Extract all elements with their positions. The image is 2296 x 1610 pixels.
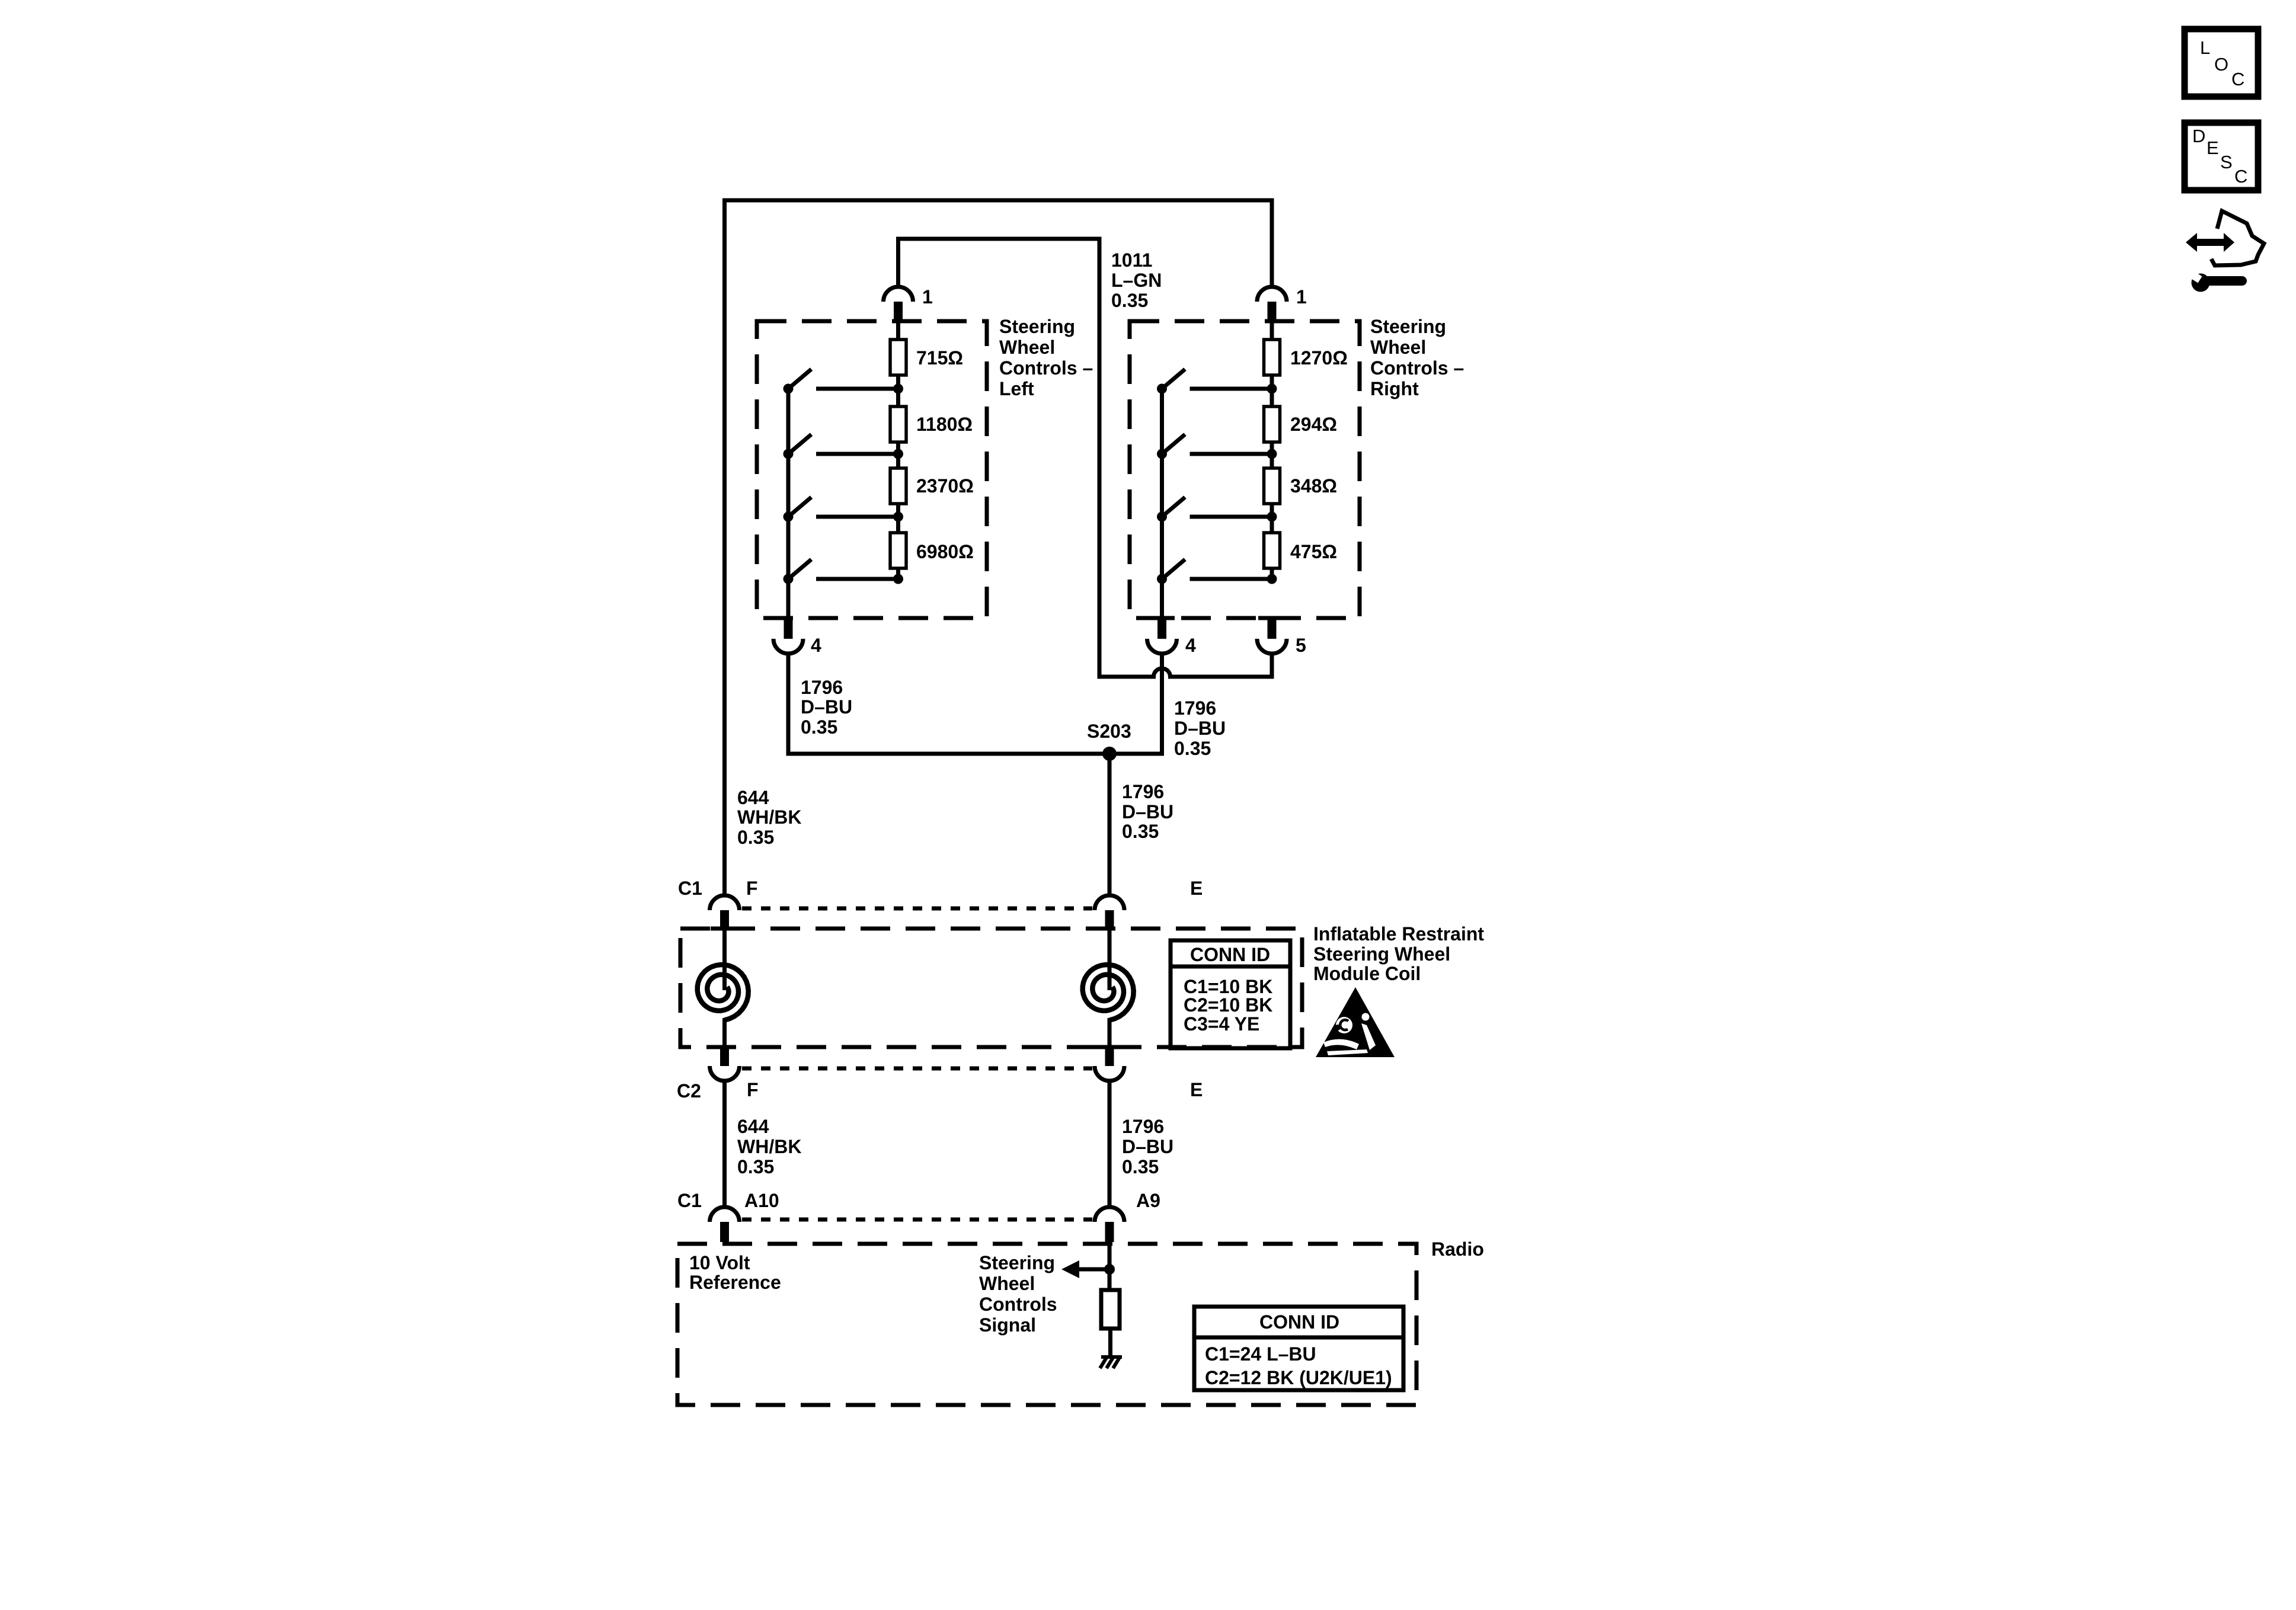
node switch pivots left SWC [784,384,794,394]
resistor right SWC 294 ohm [1264,406,1280,442]
svg-text:4: 4 [811,635,821,656]
svg-text:C2: C2 [677,1080,701,1102]
node junctions right SWC resistor chain [1267,384,1277,394]
svg-text:WH/BK: WH/BK [737,806,801,828]
svg-text:Reference: Reference [689,1272,781,1293]
svg-text:C2=12 BK (U2K/UE1): C2=12 BK (U2K/UE1) [1205,1367,1392,1388]
svg-text:C3=4 YE: C3=4 YE [1184,1013,1259,1035]
svg-text:D–BU: D–BU [1122,801,1173,822]
resistor left SWC 715 ohm [890,340,906,375]
wire 1796 D-BU from C2 E to radio A9 [1108,1081,1112,1207]
svg-text:Steering Wheel: Steering Wheel [1313,943,1450,965]
connector terminal coil C2 cavity E [1095,1066,1124,1081]
wire left SWC resistor chain segments [896,323,900,579]
arrow steering wheel controls signal output [1061,1260,1079,1278]
svg-text:1180Ω: 1180Ω [916,414,973,435]
icon vehicle direction arrow [2183,211,2265,292]
resistor right SWC 1270 ohm [1264,340,1280,375]
svg-text:D–BU: D–BU [801,696,852,718]
svg-text:C2=10 BK: C2=10 BK [1184,994,1272,1016]
ground chassis symbol [1100,1357,1122,1368]
resistor left SWC 1180 ohm [890,406,906,442]
connector terminal radio C1 cavity A10 [710,1207,740,1222]
wire 644 WH/BK from C2 F to radio C1 A10 [722,1081,727,1207]
svg-text:F: F [746,878,758,899]
svg-text:Radio: Radio [1431,1238,1484,1260]
svg-text:1796: 1796 [801,677,843,698]
switch blades left SWC S1-S4 [788,369,811,579]
resistor radio internal pull-down [1101,1290,1120,1329]
wire left SWC switch rail [786,389,791,619]
svg-text:0.35: 0.35 [737,827,774,848]
svg-text:C1: C1 [677,1190,702,1211]
svg-text:E: E [1190,1079,1203,1100]
node switch pivots right SWC [1157,384,1167,394]
wire 1011 L-GN: left SWC conn1 up, across, down right side, to right SWC conn5 (with hop over conn4 wire) [898,239,1272,677]
svg-text:L: L [2200,37,2210,58]
connector terminal left SWC pin 4 [773,639,803,654]
svg-text:644: 644 [737,1116,769,1137]
wire 1796 D-BU from right SWC conn 4 down to S203 [1113,654,1162,754]
wire 644 WH/BK: radio 10V ref loop, left vertical + top run to right SWC connector 1 [725,200,1272,895]
wire resistor to ground [1108,1329,1112,1356]
node radio signal junction [1104,1264,1115,1275]
component box Radio [677,1244,1416,1405]
resistor left SWC 2370 ohm [890,468,906,504]
svg-text:Wheel: Wheel [1370,337,1426,358]
svg-text:CONN ID: CONN ID [1190,944,1270,965]
coil spiral right (clockspring) [1083,965,1134,1020]
svg-text:D–BU: D–BU [1122,1136,1173,1157]
connector terminal right SWC pin 1 [1257,287,1287,302]
svg-text:1270Ω: 1270Ω [1290,347,1348,369]
svg-text:L–GN: L–GN [1111,270,1162,291]
svg-text:Steering: Steering [1370,316,1446,337]
svg-text:Right: Right [1370,378,1419,399]
svg-text:1011: 1011 [1111,249,1152,271]
svg-text:Module Coil: Module Coil [1313,963,1421,984]
svg-text:A9: A9 [1136,1190,1160,1211]
node junctions left SWC resistor chain [893,384,903,394]
svg-text:Controls –: Controls – [999,357,1093,379]
svg-text:Wheel: Wheel [979,1273,1035,1294]
resistor right SWC 348 ohm [1264,468,1280,504]
svg-text:10 Volt: 10 Volt [689,1252,750,1273]
wire right SWC resistor chain segments [1270,323,1274,579]
svg-text:Steering: Steering [979,1252,1055,1273]
switch blades right SWC S5-S8 [1162,369,1185,579]
svg-text:475Ω: 475Ω [1290,541,1337,562]
svg-text:A10: A10 [744,1190,779,1211]
svg-text:Signal: Signal [979,1314,1036,1336]
connector terminal left SWC pin 1 [884,287,913,302]
svg-text:1796: 1796 [1122,781,1164,802]
resistor left SWC 6980 ohm [890,533,906,568]
svg-text:O: O [2214,54,2228,75]
svg-text:CONN ID: CONN ID [1259,1311,1339,1333]
inline harness connector line C2 F to E [742,1067,1092,1071]
svg-text:F: F [747,1079,759,1100]
connector terminal coil C2 cavity F [710,1066,740,1081]
svg-text:0.35: 0.35 [1122,1156,1159,1177]
node splice S203 [1102,747,1117,761]
coil spiral left (clockspring) [698,965,749,1020]
svg-text:1796: 1796 [1174,697,1216,719]
svg-text:Left: Left [999,378,1034,399]
svg-text:1796: 1796 [1122,1116,1164,1137]
svg-text:1: 1 [1296,286,1307,308]
resistor right SWC 475 ohm [1264,533,1280,568]
wire signal node to internal resistor [1108,1269,1112,1290]
icon LOC hyperlink box [2185,29,2258,97]
svg-text:6980Ω: 6980Ω [916,541,974,562]
svg-text:Steering: Steering [999,316,1075,337]
svg-text:S203: S203 [1087,721,1131,742]
svg-text:D–BU: D–BU [1174,718,1226,739]
icon SRS warning triangle (inflatable restraint) [1316,987,1395,1057]
svg-text:Wheel: Wheel [999,337,1055,358]
wire right SWC switch fixed contacts [1190,389,1272,579]
svg-text:0.35: 0.35 [737,1156,774,1177]
icon DESC hyperlink box [2185,123,2258,190]
wire 1796 D-BU from S203 down to coil connector E [1108,754,1112,895]
wire A9 into radio to signal node [1108,1222,1112,1269]
svg-text:E: E [2207,137,2219,158]
component box Steering Wheel Controls Right [1130,321,1360,618]
svg-text:Controls: Controls [979,1294,1057,1315]
svg-text:Inflatable Restraint: Inflatable Restraint [1313,923,1484,945]
component box Steering Wheel Controls Left [757,321,987,618]
svg-text:S: S [2220,152,2233,172]
svg-text:348Ω: 348Ω [1290,475,1337,497]
connector terminal coil C1 cavity F [710,895,740,910]
inline harness connector line C1 A10 to A9 [742,1218,1092,1222]
svg-text:1: 1 [922,286,933,308]
wire 1796 D-BU through coil module right branch [1108,910,1112,990]
table CONN ID coil module [1171,940,1290,1048]
icon wrench [2192,274,2210,292]
svg-text:C1: C1 [678,878,702,899]
svg-text:4: 4 [1185,635,1196,656]
icon vehicle outline [2211,211,2264,265]
svg-text:0.35: 0.35 [1111,290,1148,311]
svg-text:644: 644 [737,787,769,808]
svg-text:715Ω: 715Ω [916,347,963,369]
component box edge dash segments at connector pins [1147,616,1175,620]
svg-text:0.35: 0.35 [1174,738,1211,759]
svg-text:0.35: 0.35 [1122,821,1159,842]
wire arrow stub steering wheel controls signal [1079,1267,1109,1272]
connector terminal right SWC pin 4 [1147,639,1177,654]
inline harness connector line C1 F to E [742,907,1092,911]
svg-text:Controls –: Controls – [1370,357,1464,379]
wire right SWC switch rail [1160,389,1164,619]
table CONN ID radio [1194,1307,1403,1390]
svg-text:WH/BK: WH/BK [737,1136,801,1157]
svg-text:294Ω: 294Ω [1290,414,1337,435]
svg-text:D: D [2192,126,2205,146]
svg-text:C1=24 L–BU: C1=24 L–BU [1205,1343,1316,1365]
svg-text:E: E [1190,878,1203,899]
wire 644 WH/BK through coil module left branch [722,910,727,990]
svg-text:2370Ω: 2370Ω [916,475,974,497]
connector terminal radio C1 cavity A9 [1095,1207,1124,1222]
connector terminal right SWC pin 5 [1257,639,1287,654]
component box Inflatable Restraint Steering Wheel Module Coil [680,929,1302,1047]
svg-text:0.35: 0.35 [801,716,837,738]
wire left SWC switch fixed contacts [816,389,898,579]
svg-text:5: 5 [1296,635,1306,656]
connector terminal coil C1 cavity E [1095,895,1124,910]
wire 1796 D-BU from left SWC conn 4 down to S203 [788,654,1106,754]
svg-text:C: C [2231,69,2244,89]
svg-text:C: C [2234,166,2247,187]
